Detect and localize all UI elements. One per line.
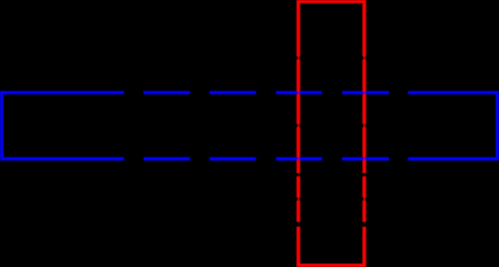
blue top edge: solid left part, dashes, solid right part <box>0 91 499 94</box>
red bottom edge <box>297 264 366 267</box>
red left edge segments <box>297 0 301 267</box>
red right edge pinch bridges <box>363 56 365 201</box>
blue top edge crossing bridges <box>296 92 367 94</box>
red left edge pinch bridges <box>297 56 299 201</box>
red top edge <box>297 0 366 3</box>
blue right edge <box>496 91 499 161</box>
blue horizontal rectangle <box>0 91 499 161</box>
blue bottom edge: solid left part, dashes, solid right part <box>0 157 499 160</box>
blue left edge <box>0 91 3 161</box>
blue bottom edge crossing bridges <box>296 158 367 160</box>
red right edge segments <box>362 0 366 267</box>
red vertical rectangle <box>297 0 366 267</box>
